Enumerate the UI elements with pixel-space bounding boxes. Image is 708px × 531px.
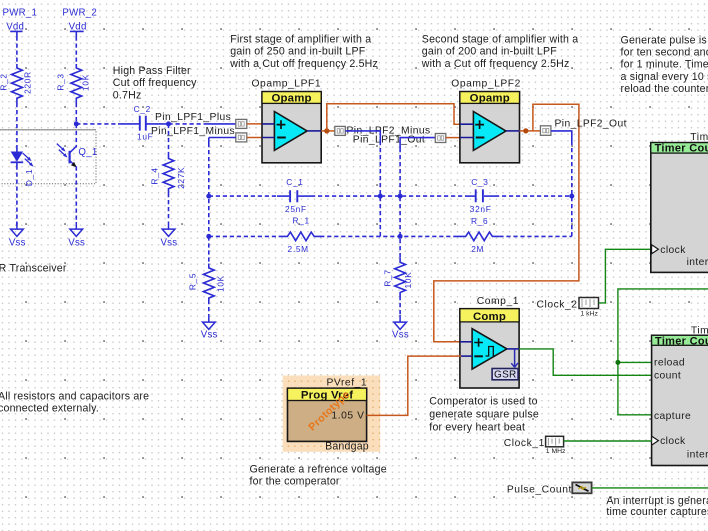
svg-text:for the comperator: for the comperator xyxy=(250,476,340,488)
svg-text:32nF: 32nF xyxy=(470,204,492,214)
svg-text:R_7: R_7 xyxy=(382,269,392,286)
wire node to Q_1 collector xyxy=(75,124,77,148)
wire node down to R_4 xyxy=(168,124,170,155)
ground Vss (R_5) xyxy=(201,315,218,340)
wire LPF1 output stub xyxy=(307,130,321,132)
svg-text:227K: 227K xyxy=(176,167,186,189)
op-amp Opamp_LPF1 xyxy=(252,79,322,163)
wire LPF2 input stubs redraw xyxy=(460,124,474,137)
voltage reference PVref_1 halo xyxy=(283,376,381,452)
wire pin to LPF2 - input xyxy=(446,137,462,139)
capacitor C_3 xyxy=(476,189,483,202)
svg-text:count: count xyxy=(654,370,681,381)
node green junction reload xyxy=(615,360,620,365)
svg-text:PWR_2: PWR_2 xyxy=(62,8,97,19)
svg-text:10K: 10K xyxy=(403,272,413,289)
wire Clock_1 to timer2 clock xyxy=(564,440,652,442)
svg-text:10K: 10K xyxy=(80,74,90,91)
wire reload branch xyxy=(618,361,652,363)
wire LPF2 output stub xyxy=(506,130,520,132)
svg-text:1 MHz: 1 MHz xyxy=(546,448,566,455)
wire Clock_2 to timer1 clock xyxy=(599,249,652,303)
node A junction dot xyxy=(324,128,329,133)
svg-text:generate square pulse: generate square pulse xyxy=(429,408,539,420)
wire C row (feedback capacitors row) xyxy=(209,195,277,197)
IR transceiver off-chip box xyxy=(0,130,96,184)
svg-text:Q_1: Q_1 xyxy=(78,147,97,158)
svg-text:Timer Cou: Timer Cou xyxy=(655,335,708,347)
voltage reference PVref_1 xyxy=(288,377,369,452)
svg-text:connected externaly.: connected externaly. xyxy=(0,403,99,415)
wire R row to R_5 xyxy=(208,236,210,263)
pin box Pin_LPF2_Out xyxy=(540,126,551,136)
svg-text:First stage of amplifier with: First stage of amplifier with a xyxy=(230,33,371,45)
wire D_1 to Vss xyxy=(16,166,18,230)
node B junction dot xyxy=(523,128,528,133)
pin box Pin_LPF2_Minus xyxy=(335,126,346,135)
svg-text:for 1 minute. Timer: for 1 minute. Timer xyxy=(621,59,708,71)
svg-text:clock: clock xyxy=(660,245,686,256)
svg-text:1.05 V: 1.05 V xyxy=(331,411,364,422)
svg-text:Generate pulse is us: Generate pulse is us xyxy=(621,35,708,47)
resistor R_7 xyxy=(395,258,406,297)
svg-text:25nF: 25nF xyxy=(285,204,307,214)
node junction R_3 / C_2 xyxy=(74,121,79,126)
svg-text:All resistors and capacitors a: All resistors and capacitors are xyxy=(0,390,149,402)
resistor R_4 xyxy=(163,155,174,193)
wire Pin_LPF1_Out net xyxy=(400,138,435,148)
wire R_5 to Vss xyxy=(208,300,210,315)
ground Vss (R_4) xyxy=(160,222,177,248)
svg-text:Opamp_LPF2: Opamp_LPF2 xyxy=(451,79,521,90)
wire C_2 to node A1 xyxy=(146,123,169,125)
pin box Pulse_Count xyxy=(572,482,591,493)
svg-text:Vss: Vss xyxy=(9,237,26,248)
wire comparator minus input stub xyxy=(460,355,472,357)
svg-text:PVref_1: PVref_1 xyxy=(327,377,368,388)
node dots R row xyxy=(206,234,211,239)
wire node B xyxy=(520,130,541,132)
resistor R_3 xyxy=(71,64,82,103)
power PWR_2 Vdd symbol xyxy=(69,22,87,37)
resistor R_2 xyxy=(11,64,22,103)
ground Vss (R_7) xyxy=(392,315,409,340)
wire Pin_LPF1_Minus left segment xyxy=(209,137,236,139)
wire R_3 to node xyxy=(75,103,77,124)
wire pin to LPF1 + input xyxy=(247,123,264,125)
wire PVref output to comparator minus xyxy=(367,356,461,415)
svg-text:Opamp_LPF1: Opamp_LPF1 xyxy=(252,79,322,90)
node dots C row xyxy=(206,194,211,199)
resistor R_6 xyxy=(456,232,499,241)
svg-text:Opamp: Opamp xyxy=(470,93,510,105)
wire node to C_2 xyxy=(76,123,118,125)
svg-text:C_1: C_1 xyxy=(286,177,303,187)
LED D_1 xyxy=(11,149,35,187)
svg-text:inter: inter xyxy=(687,257,708,268)
svg-text:Pin_LPF1_Plus: Pin_LPF1_Plus xyxy=(155,112,231,123)
wire pin to LPF1 - input xyxy=(247,137,264,139)
wire node A riser to LPF2 plus xyxy=(327,104,462,131)
svg-text:Tim: Tim xyxy=(690,132,708,143)
comparator Comp_1 xyxy=(460,296,519,388)
svg-text:0.7Hz: 0.7Hz xyxy=(113,89,142,101)
wire minus node vertical to feedback rows xyxy=(208,138,210,144)
svg-text:Generate a refrence voltage: Generate a refrence voltage xyxy=(250,463,387,475)
svg-text:IR Transceiver: IR Transceiver xyxy=(0,263,67,275)
svg-text:Pin_LPF2_Out: Pin_LPF2_Out xyxy=(555,118,627,129)
timer counter block 2 xyxy=(652,325,708,465)
wire node A xyxy=(321,130,335,132)
svg-text:R_3: R_3 xyxy=(55,73,65,90)
wire comparator output to timer count xyxy=(519,349,652,375)
ground Vss (D_1) xyxy=(9,222,26,248)
pin box Pin_LPF1_Plus xyxy=(236,119,247,128)
capacitor C_1 xyxy=(290,190,297,202)
svg-text:capture: capture xyxy=(654,411,691,422)
svg-text:with a Cut off frequency 2.5Hz: with a Cut off frequency 2.5Hz xyxy=(421,58,570,70)
wire LPF1 input stubs redraw xyxy=(262,124,274,138)
svg-text:gain of 250 and in-built LPF: gain of 250 and in-built LPF xyxy=(230,46,365,58)
pin box Pin_LPF1_Out xyxy=(435,134,446,143)
resistor R_5 xyxy=(203,264,214,301)
wire Vdd1 to R_2 xyxy=(16,37,18,65)
svg-text:C_3: C_3 xyxy=(471,177,488,187)
svg-text:R_5: R_5 xyxy=(188,273,198,290)
svg-text:with a Cut off frequency 2.5Hz: with a Cut off frequency 2.5Hz xyxy=(229,58,378,70)
svg-text:a signal every 10 s: a signal every 10 s xyxy=(621,71,708,83)
wire node to Pin_LPF1_Plus xyxy=(169,123,205,125)
timer counter block 1 xyxy=(651,132,708,272)
svg-text:D_1: D_1 xyxy=(24,169,34,186)
wire timer2 net from right edge xyxy=(618,289,708,415)
power PWR_1 Vdd symbol xyxy=(6,22,24,37)
GSR drop wire and arrow xyxy=(514,349,516,367)
transistor Q_1 xyxy=(57,144,98,168)
svg-text:High Pass Filter: High Pass Filter xyxy=(113,65,191,77)
wire Vdd2 to R_3 xyxy=(75,37,77,65)
svg-text:gain of 200 and in-built LPF: gain of 200 and in-built LPF xyxy=(422,46,557,58)
svg-text:clock: clock xyxy=(660,436,686,447)
svg-text:R_2: R_2 xyxy=(0,73,9,90)
wire R_2 to D_1 xyxy=(16,103,18,149)
svg-text:reload: reload xyxy=(654,357,685,368)
wire comparator output stub xyxy=(507,348,519,350)
svg-text:Pin_LPF1_Minus: Pin_LPF1_Minus xyxy=(151,126,235,137)
clock Clock_2 xyxy=(537,298,599,318)
resistor R_1 xyxy=(279,232,322,241)
wire node A to feedback vertical xyxy=(345,131,380,141)
svg-text:Opamp: Opamp xyxy=(271,93,311,105)
svg-text:Pin_LPF1_Out: Pin_LPF1_Out xyxy=(353,134,425,145)
svg-text:220R: 220R xyxy=(23,71,33,94)
svg-text:2M: 2M xyxy=(471,244,484,254)
node junction C_2 / R_4 / pin xyxy=(166,121,171,126)
svg-text:1 kHz: 1 kHz xyxy=(581,311,599,318)
svg-text:Timer Cou: Timer Cou xyxy=(655,143,708,155)
op-amp Opamp_LPF2 xyxy=(451,79,521,163)
capacitor C_2 xyxy=(140,116,146,131)
svg-text:Clock_1: Clock_1 xyxy=(504,438,545,449)
wire Pulse_Count to right edge xyxy=(592,487,708,489)
svg-text:Pulse_Count: Pulse_Count xyxy=(507,485,572,496)
svg-text:time counter captures: time counter captures xyxy=(606,506,708,518)
svg-text:for ten second and: for ten second and xyxy=(621,47,708,59)
svg-text:Comp: Comp xyxy=(473,311,506,323)
wire Pin_LPF2_Out to stage2 feedback vertical xyxy=(551,131,572,141)
wire R_4 to Vss xyxy=(168,193,170,222)
svg-text:10K: 10K xyxy=(215,275,225,292)
svg-text:Vss: Vss xyxy=(392,329,409,340)
wire feedback vertical stage1 xyxy=(379,141,381,236)
svg-text:Clock_2: Clock_2 xyxy=(537,300,578,311)
svg-text:R_6: R_6 xyxy=(471,216,488,226)
wire Q_1 emitter to Vss xyxy=(75,167,77,222)
svg-text:GSR: GSR xyxy=(494,370,517,381)
svg-text:inter: inter xyxy=(687,450,708,461)
svg-text:Vss: Vss xyxy=(201,329,218,340)
svg-text:Bandgap: Bandgap xyxy=(325,441,369,453)
GSR box xyxy=(492,369,518,381)
svg-text:Comperator is used to: Comperator is used to xyxy=(429,395,537,407)
wire node B riser to comparator plus xyxy=(434,104,579,342)
svg-text:C_2: C_2 xyxy=(134,104,151,114)
ground Vss (Q_1) xyxy=(68,222,85,248)
svg-text:Vss: Vss xyxy=(68,237,85,248)
svg-text:R_1: R_1 xyxy=(293,215,310,225)
svg-text:R_4: R_4 xyxy=(149,167,159,184)
svg-text:Second stage of amplifier with: Second stage of amplifier with a xyxy=(422,33,579,45)
wire R row (feedback resistors row) xyxy=(209,235,279,237)
svg-text:2.5M: 2.5M xyxy=(288,244,309,254)
svg-text:for every heart beat: for every heart beat xyxy=(429,421,525,433)
clock Clock_1 xyxy=(504,436,566,455)
svg-text:Cut off frequency: Cut off frequency xyxy=(113,77,197,89)
wire R_7 to Vss xyxy=(399,296,401,315)
pin box Pin_LPF1_Minus xyxy=(236,133,247,142)
svg-text:Comp_1: Comp_1 xyxy=(477,296,519,307)
wire comparator plus input stub xyxy=(460,341,472,343)
svg-text:Vss: Vss xyxy=(160,237,177,248)
svg-text:PWR_1: PWR_1 xyxy=(3,8,38,19)
svg-text:reload the counter: reload the counter xyxy=(621,83,708,95)
